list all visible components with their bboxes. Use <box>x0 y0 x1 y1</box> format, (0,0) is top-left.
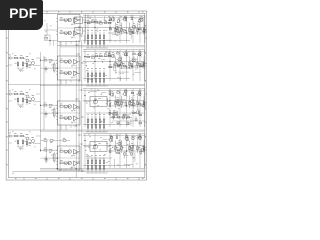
ground symbol row3 <box>18 105 23 107</box>
module U1 resistor R140b <box>64 19 67 22</box>
module U1 resistor R141b <box>64 32 67 35</box>
border zone labels <box>15 12 143 180</box>
transistor Q37 <box>29 95 34 101</box>
module U2 diode D20 <box>71 65 75 67</box>
wire vertical row3 net1 <box>94 89 96 128</box>
resistor group R260s <box>109 51 142 68</box>
module U4 resistor R440a <box>60 149 63 153</box>
module U4 diode D41 <box>71 166 75 168</box>
input connector J3 <box>8 91 11 96</box>
wire output rail row2 <box>83 49 145 51</box>
vertical bus wire B- <box>78 40 80 172</box>
net label box NET2 <box>75 28 87 35</box>
junction dots row2 <box>84 56 127 68</box>
wire segments row4 <box>85 134 137 169</box>
resistor R112 (vertical) <box>129 23 133 36</box>
resistor R210 (vertical) <box>115 57 119 70</box>
module U4 outline <box>58 146 81 170</box>
net label box NET1 <box>75 17 87 24</box>
resistor R235 (vertical) <box>26 62 28 69</box>
wire vertical row3 net0 <box>84 89 86 128</box>
transistor Q4b <box>116 140 122 146</box>
resistor R332 <box>18 91 24 95</box>
transistor Q27 <box>29 59 34 65</box>
resistor R111 (vertical) <box>121 23 125 36</box>
module U2 buffer amp A21 <box>74 71 81 76</box>
transistor Q1e <box>138 16 144 22</box>
wire output rail2 row1 <box>83 17 145 19</box>
resistor R482 <box>50 140 53 143</box>
resistor R333 (vertical) <box>15 97 19 105</box>
module U1 buffer amp A10 <box>74 18 81 23</box>
wire vertical row3 net2 <box>109 89 111 128</box>
resistor R310 (vertical) <box>115 96 119 109</box>
resistor R233 (vertical) <box>15 61 19 69</box>
capacitor C33 <box>29 101 32 104</box>
wire output rail row4 <box>83 133 145 135</box>
resistor bank R321-R325 <box>86 114 108 132</box>
transistor Q26 <box>24 56 30 62</box>
module U1 diode D11 <box>71 36 75 38</box>
module U4 diode D40 <box>71 155 75 157</box>
wire input row4 <box>8 136 40 144</box>
wire module U4 drops <box>61 167 71 170</box>
reference labels row2 <box>85 51 137 78</box>
wire output rail2 row3 <box>83 90 145 92</box>
vertical wire net N2 <box>59 42 61 169</box>
wire pre-bank row4 <box>86 157 112 159</box>
module U3 transistor Q381 <box>68 116 72 120</box>
driver box Q30 <box>84 97 110 107</box>
resistor chain2 R307-R309 <box>110 115 132 118</box>
wire vertical row2 net4 <box>126 50 128 82</box>
wire output rail row3 <box>83 88 145 90</box>
vertical wire net N3 <box>40 52 42 152</box>
module U2 resistor R241b <box>64 72 67 75</box>
wire vertical row4 net3 <box>119 134 121 169</box>
resistor chain R101-R106 <box>84 19 112 24</box>
vertical wire net N4 <box>43 56 45 130</box>
wire vertical row4 net2 <box>109 134 111 169</box>
resistor R451 <box>44 148 47 151</box>
resistor R411 (vertical) <box>121 141 125 154</box>
module U2 resistor R240a <box>60 59 63 63</box>
resistor R373 <box>139 121 142 124</box>
label specks row2 <box>12 54 35 72</box>
junction node row2 <box>40 60 58 69</box>
capacitor C32 <box>131 104 134 105</box>
resistor R434 (vertical) <box>22 139 26 147</box>
resistor R413 (vertical) <box>137 141 141 154</box>
trimmer VR4 <box>51 152 55 163</box>
transistor Q1b <box>114 24 120 30</box>
wire module U3 drops <box>61 125 71 130</box>
label specks row3 <box>12 90 35 108</box>
connector stub row1 <box>44 21 58 36</box>
module U4 buffer amp A41 <box>74 161 81 166</box>
resistor R311 (vertical) <box>121 96 125 109</box>
module U3 resistor R341a <box>60 115 63 119</box>
resistor chain R201-R206 <box>84 53 112 58</box>
module U2 transistor Q281 <box>68 71 72 75</box>
horizontal bottom bus wire <box>13 169 145 175</box>
module U2 transistor Q280 <box>68 60 72 64</box>
wire vertical row2 net0 <box>84 50 86 82</box>
transistor Q4e <box>136 134 142 140</box>
wire vertical row4 net4 <box>126 134 128 169</box>
PDF badge overlay <box>0 0 43 30</box>
wire feedback row4 <box>41 150 58 158</box>
module U3 diode D30 <box>71 110 75 112</box>
wire vertical row1 net0 <box>84 16 86 44</box>
junction node row4 <box>40 150 58 159</box>
transistor Q46 <box>24 134 30 140</box>
wire mid2 row2 <box>108 66 145 68</box>
resistor R114 (vertical) <box>143 23 147 36</box>
wire bottom middle <box>41 141 71 161</box>
capacitor C24 <box>45 66 48 73</box>
wire module U1 drops <box>61 42 71 46</box>
junction node row3 <box>40 105 58 114</box>
wire vertical row3 net4 <box>126 89 128 128</box>
wire vertical row1 net4 <box>126 16 128 44</box>
sheet border inner frame <box>8 13 145 177</box>
transistor Q4f <box>139 146 145 152</box>
trimmer VR2 <box>51 62 55 73</box>
resistor group R460s <box>110 134 142 155</box>
resistor R452 <box>49 150 52 153</box>
resistor R331 <box>11 91 17 95</box>
module U1 resistor R141a <box>60 30 63 33</box>
module U3 diode D31 <box>71 121 75 123</box>
resistor R412 (vertical) <box>129 141 133 154</box>
wire lower row4 <box>83 165 130 167</box>
wire mid2 row3 <box>108 105 145 107</box>
border row tick marks <box>6 38 147 150</box>
transistor Q3d <box>129 98 135 104</box>
bus tap stubs <box>74 18 85 172</box>
resistor group R360s <box>109 89 142 116</box>
module U3 resistor R340a <box>60 104 63 108</box>
wire mid2 row4 <box>108 150 145 152</box>
module U3 divider <box>58 112 81 114</box>
module U4 pin stubs ch0 <box>56 150 69 153</box>
wire mid row4 <box>83 145 145 147</box>
wire segments row1 <box>85 16 143 44</box>
module U2 diode D21 <box>71 76 75 78</box>
wire vertical row4 net5 <box>132 134 134 169</box>
resistor R414 (vertical) <box>143 141 147 154</box>
transistor Q1a <box>109 16 115 22</box>
module U1 outline <box>58 15 81 42</box>
capacitor C22 <box>131 65 134 66</box>
transistor Q2f <box>139 62 145 68</box>
transistor Q47 <box>29 137 34 143</box>
capacitor C11 <box>117 31 120 32</box>
resistor R213 (vertical) <box>137 57 141 70</box>
capacitor C21 <box>117 65 120 66</box>
capacitor C41 <box>117 149 120 150</box>
resistor R371 <box>117 122 120 124</box>
module U3 buffer amp A31 <box>74 116 81 121</box>
module U4 transistor Q481 <box>68 161 72 165</box>
resistor R113 (vertical) <box>137 23 141 36</box>
driver box Q40 <box>84 142 110 152</box>
capacitor C42 <box>131 149 134 150</box>
resistor R313 (vertical) <box>137 96 141 109</box>
transistor Q1f <box>141 27 147 33</box>
capacitor C23 <box>29 65 32 68</box>
border zone tick marks <box>24 11 139 180</box>
module U2 divider <box>58 67 81 69</box>
module U2 resistor R241a <box>60 70 63 74</box>
resistor bank R121-R125 <box>86 30 108 48</box>
module U4 resistor R441a <box>60 160 63 164</box>
wire vertical row4 net6 <box>139 134 141 169</box>
module U2 buffer amp A20 <box>74 59 81 64</box>
module U3 pin stubs ch0 <box>56 105 69 108</box>
transistor Q36 <box>24 92 30 98</box>
wire vertical row1 net2 <box>109 16 111 44</box>
module U1 buffer amp A11 <box>74 31 81 36</box>
resistor R410 (vertical) <box>115 141 119 154</box>
junction node bottom bus <box>57 168 77 171</box>
resistor bank R221-R225 <box>86 68 108 86</box>
transistor Q4c <box>124 135 130 141</box>
module U2 outline <box>58 56 81 80</box>
reference labels row1 <box>86 16 141 42</box>
resistor R252 <box>49 60 52 63</box>
input connector J2 <box>8 55 11 60</box>
transistor Q3a <box>109 91 115 97</box>
resistor R151 <box>45 36 48 39</box>
capacitor C44 <box>45 156 48 163</box>
module U3 buffer amp A30 <box>74 104 81 109</box>
resistor R431 <box>11 133 17 137</box>
junction dots row1 <box>84 22 127 34</box>
module U4 divider <box>58 157 81 159</box>
capacitor C43 <box>29 143 32 146</box>
wire feedback row2 <box>41 60 58 68</box>
module U3 resistor R341b <box>64 117 67 120</box>
transistor Q1c <box>122 16 128 22</box>
transistor Q4a <box>108 136 114 142</box>
wire input row2 <box>8 58 40 66</box>
wire row1 badge-right drops <box>44 35 57 46</box>
module U3 outline <box>58 101 81 125</box>
module U3 transistor Q380 <box>68 105 72 109</box>
wire vertical row4 net7 <box>143 134 145 169</box>
reference labels row4 <box>85 134 138 166</box>
transistor Q3f <box>140 102 146 108</box>
wire vertical row3 net3 <box>119 89 121 128</box>
resistor R110 (vertical) <box>115 23 119 36</box>
wire input row3 <box>8 94 40 102</box>
ground symbol row4 <box>18 147 23 149</box>
module U1 pin stubs ch1 <box>56 32 69 35</box>
wire vertical row2 net7 <box>143 50 145 82</box>
capacitor C34 <box>45 111 48 118</box>
wire mid row3 <box>83 100 145 102</box>
resistor R433 (vertical) <box>15 139 19 147</box>
wire row1 vertical taps <box>86 14 89 40</box>
wire vertical row2 net3 <box>119 50 121 82</box>
resistor bank R421-R425 <box>86 155 108 173</box>
capacitor C35 <box>135 116 138 120</box>
module U1 divider <box>58 27 81 29</box>
resistor R214 (vertical) <box>143 57 147 70</box>
ground symbol bottom <box>45 160 49 162</box>
resistor R231 <box>11 55 17 59</box>
module U2 resistor R240b <box>64 61 67 64</box>
wire vertical row1 net5 <box>132 16 134 44</box>
wire vertical row1 net3 <box>119 16 121 44</box>
wire output rail2 row2 <box>83 51 145 53</box>
vertical bus wire B+ <box>75 40 77 178</box>
capacitor C12 <box>131 31 134 32</box>
transistor Q4d <box>129 143 135 149</box>
wire vertical row4 net1 <box>94 134 96 169</box>
resistor R352 <box>49 105 52 108</box>
resistor R212 (vertical) <box>129 57 133 70</box>
module U2 pin stubs ch1 <box>56 72 69 75</box>
label specks row4 <box>12 132 35 150</box>
transistor Q1d <box>131 23 137 29</box>
wire vertical row4 net0 <box>84 134 86 169</box>
transistor Q2a <box>109 52 115 58</box>
vertical wire net N1 <box>56 42 58 169</box>
transistor Q2e <box>136 51 142 57</box>
wire pre-bank row3 <box>86 112 112 114</box>
junction dots row3 <box>84 95 127 107</box>
transistor Q3b <box>114 97 120 103</box>
resistor R435 (vertical) <box>26 140 28 147</box>
vertical bus wire GND <box>81 40 83 172</box>
resistor R211 (vertical) <box>121 57 125 70</box>
module U1 pin stubs ch0 <box>56 19 69 22</box>
wire vertical row1 net7 <box>143 16 145 44</box>
module U1 transistor Q181 <box>68 31 72 35</box>
wire output rail2 row4 <box>83 135 145 137</box>
module U1 resistor R140a <box>60 17 63 21</box>
wire output rail row1 <box>83 15 145 17</box>
wire vertical row2 net1 <box>94 50 96 82</box>
transistor Q3h <box>135 109 141 115</box>
horizontal rail wire row2-3 <box>8 84 145 85</box>
resistor R314 (vertical) <box>143 96 147 109</box>
resistor R483 <box>63 138 66 141</box>
module U2 pin stubs ch0 <box>56 60 69 63</box>
wire vertical row2 net5 <box>132 50 134 82</box>
module U1 diode D10 <box>71 23 75 25</box>
resistor R232 <box>18 55 24 59</box>
wire lower row3 <box>83 124 130 126</box>
resistor R312 (vertical) <box>129 96 133 109</box>
module U4 transistor Q480 <box>68 150 72 154</box>
transistor Q3c <box>122 90 128 96</box>
sheet border outer frame <box>6 11 147 180</box>
wire lower row2 <box>83 78 130 80</box>
horizontal rail wire row1-2 <box>57 46 145 47</box>
resistor R251 <box>44 58 47 61</box>
wire mid2 row1 <box>108 32 145 34</box>
resistor R335 (vertical) <box>26 98 28 105</box>
transistor Q2d <box>130 57 136 63</box>
capacitor C31 <box>117 104 120 105</box>
wire mid row2 <box>83 61 145 63</box>
wire mid row1 <box>83 27 145 29</box>
resistor R334 (vertical) <box>22 97 26 105</box>
resistor R432 <box>18 133 24 137</box>
wire module U2 drops <box>61 80 71 84</box>
wire feedback row3 <box>41 105 58 113</box>
module U3 pin stubs ch1 <box>56 117 69 120</box>
resistor R481 <box>44 138 47 141</box>
wire lower2 row3 <box>108 113 145 121</box>
wire lower row1 <box>83 40 130 42</box>
junction dots row4 <box>84 140 127 152</box>
transistor Q3g <box>111 110 117 116</box>
wire vertical row1 net1 <box>94 16 96 44</box>
wire vertical row3 net7 <box>143 89 145 128</box>
border row labels <box>7 25 146 165</box>
wire vertical row3 net5 <box>132 89 134 128</box>
wire vertical row1 net6 <box>139 16 141 44</box>
transistor Q3e <box>136 91 142 97</box>
wire segments row2 <box>86 58 141 81</box>
input connector J4 <box>8 133 11 138</box>
transistor Q2c <box>123 51 129 57</box>
resistor R372 <box>127 122 131 125</box>
module U4 pin stubs ch1 <box>56 162 69 165</box>
module U3 resistor R340b <box>64 106 67 109</box>
wire vertical row2 net2 <box>109 50 111 82</box>
ground symbol row2 <box>18 69 23 71</box>
horizontal rail wire row3-4 <box>8 130 145 131</box>
wire vertical row3 net6 <box>139 89 141 128</box>
trimmer VR3 <box>51 107 55 118</box>
resistor R234 (vertical) <box>22 61 26 69</box>
wire vertical row2 net6 <box>139 50 141 82</box>
module U4 resistor R440b <box>64 151 67 154</box>
module U4 resistor R441b <box>64 162 67 165</box>
wire segments row3 <box>89 91 134 125</box>
resistor R351 <box>44 103 47 106</box>
resistor group R160s <box>109 15 141 33</box>
reference labels row3 <box>86 89 142 125</box>
module U4 buffer amp A40 <box>74 149 81 154</box>
module U1 transistor Q180 <box>68 18 72 22</box>
transistor Q2b <box>116 56 122 62</box>
